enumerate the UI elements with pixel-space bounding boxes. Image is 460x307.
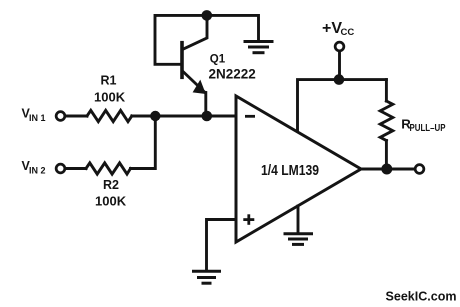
wire VCC terminal stem	[338, 52, 341, 80]
terminal VIN1 circle	[56, 112, 65, 121]
node R1/R2 junction	[150, 111, 160, 121]
svg-text:R1: R1	[101, 74, 117, 88]
node collector junction	[202, 10, 213, 21]
svg-text:IN 1: IN 1	[29, 113, 46, 123]
terminal VIN2 circle	[56, 164, 65, 173]
terminal output circle	[415, 165, 424, 174]
transistor Q1 emitter arrowhead	[193, 80, 206, 94]
svg-text:2N2222: 2N2222	[209, 67, 256, 82]
transistor Q1 base bar	[180, 43, 184, 78]
svg-text:R2: R2	[103, 178, 119, 192]
svg-text:Q1: Q1	[210, 53, 226, 65]
svg-text:PULL–UP: PULL–UP	[410, 123, 446, 134]
wire comparator V+ pin to VCC rail	[298, 80, 387, 131]
wire emitter to inverting node	[204, 93, 207, 117]
node emitter/inverting junction	[202, 111, 213, 122]
wire comparator ground pin	[297, 206, 300, 233]
ground below plus input	[194, 271, 220, 283]
wire VIN1 to R1	[66, 115, 88, 118]
wire collector node to top ground	[207, 15, 259, 40]
resistor RPULL-UP	[380, 101, 393, 141]
minus sign inverting input	[245, 115, 255, 118]
wire collector feedback loop	[155, 15, 207, 64]
node output junction	[381, 164, 392, 175]
resistor R2	[86, 163, 131, 174]
terminal VCC circle	[335, 42, 344, 51]
node VCC junction	[334, 74, 345, 85]
op-amp U1 comparator triangle	[236, 96, 361, 242]
wire output	[361, 168, 414, 171]
wire VCC rail to pull-up resistor	[385, 80, 388, 101]
wire noninverting input to ground	[207, 220, 237, 270]
svg-text:100K: 100K	[95, 194, 127, 209]
ground below comparator	[285, 234, 312, 245]
svg-text:SeekIC.com: SeekIC.com	[386, 289, 457, 304]
transistor Q1 emitter lead	[184, 72, 205, 92]
wire pull-up resistor to output node	[385, 141, 388, 170]
plus sign noninverting input	[243, 214, 254, 225]
wire R1 to inverting input node	[132, 115, 236, 118]
wire VIN2 to R2	[66, 167, 87, 170]
wire node down to R2	[131, 116, 156, 169]
transistor Q1 collector lead	[184, 20, 208, 49]
svg-text:+V: +V	[322, 20, 342, 37]
svg-text:IN 2: IN 2	[29, 166, 46, 176]
ground top right	[245, 42, 272, 53]
svg-text:1/4 LM139: 1/4 LM139	[261, 163, 319, 179]
svg-text:100K: 100K	[94, 90, 126, 105]
svg-text:CC: CC	[341, 27, 355, 38]
resistor R1	[87, 110, 132, 121]
